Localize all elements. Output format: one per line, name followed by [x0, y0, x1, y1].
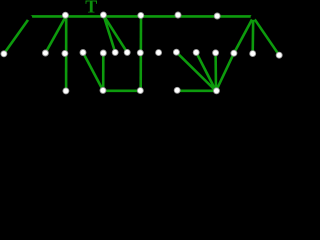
node N	[137, 88, 143, 94]
node G	[138, 12, 144, 18]
wire W to Z	[216, 53, 234, 91]
wire F to K	[104, 15, 128, 52]
node X hidden/black junction	[27, 15, 33, 21]
wire B-D-E vertical	[65, 16, 68, 91]
wire top horizontal bus X-B-F-G-O-U-T2	[30, 15, 253, 18]
node T2 hidden/black junction	[251, 15, 256, 20]
wire V to Z	[214, 53, 217, 91]
node X2	[250, 51, 256, 57]
wire H to M	[83, 53, 103, 91]
wire B to C	[45, 16, 65, 53]
node J	[112, 49, 118, 55]
wire A to hidden node X	[4, 17, 30, 53]
node W	[231, 50, 237, 56]
node M	[100, 87, 106, 93]
node R	[193, 49, 199, 55]
wire Q to Z	[176, 52, 216, 91]
node H	[80, 50, 86, 56]
wire S to Z bottom horizontal	[177, 90, 216, 93]
node B	[62, 12, 68, 18]
node L	[137, 50, 143, 56]
node U	[214, 13, 220, 19]
wire hidden node T2 to X2 vertical	[251, 17, 254, 53]
node F	[100, 12, 106, 18]
node E	[63, 88, 69, 94]
wire G-L-N vertical	[139, 16, 142, 90]
node O	[175, 12, 181, 18]
node P isolated	[156, 50, 162, 56]
node D	[62, 50, 68, 56]
node I	[100, 50, 106, 56]
wire F to J	[104, 15, 116, 52]
node Q	[173, 49, 179, 55]
node C	[42, 50, 48, 56]
svg-text:T: T	[85, 0, 97, 17]
node S	[174, 87, 180, 93]
wire M to N bottom horizontal	[103, 90, 140, 93]
node Z fan junction	[214, 88, 220, 94]
node V	[213, 50, 219, 56]
node A	[1, 51, 7, 57]
wire hidden node T2 to W	[234, 17, 253, 53]
wire R to Z	[196, 52, 216, 91]
wire I to M vertical	[102, 53, 105, 90]
node K	[124, 49, 130, 55]
node Y	[276, 52, 282, 58]
wire hidden node T2 to Y	[253, 17, 279, 55]
